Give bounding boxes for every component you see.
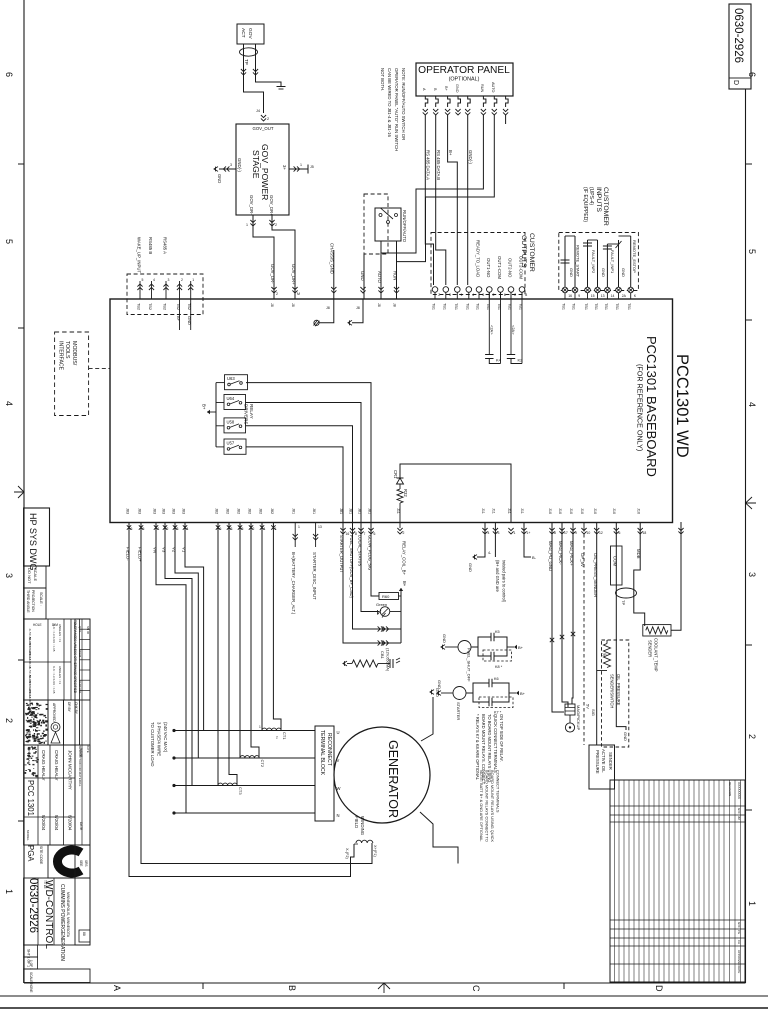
resistor R60 <box>379 593 401 600</box>
svg-text:2: 2 <box>267 117 269 121</box>
dashed box CUSTOMER OUTPUTS <box>431 233 535 295</box>
svg-text:SN ID: SN ID <box>86 626 90 635</box>
svg-text:PART NO.: PART NO. <box>78 680 82 694</box>
svg-text:8/20/04: 8/20/04 <box>68 815 73 831</box>
wire local status below edge to LED <box>358 508 380 612</box>
svg-text:J11: J11 <box>492 508 496 514</box>
svg-text:J10: J10 <box>548 508 552 514</box>
svg-text:J4: J4 <box>256 109 260 113</box>
svg-text:twisted pairs to control): twisted pairs to control) <box>502 560 507 603</box>
svg-text:NOTE: RUN/OFF/AUTO SWITCH OR: NOTE: RUN/OFF/AUTO SWITCH OR <box>401 68 406 140</box>
svg-text:1: 1 <box>246 223 248 227</box>
svg-text:8/20: 8/20 <box>737 922 741 928</box>
svg-text:MODBUS/: MODBUS/ <box>71 341 77 366</box>
wires J83 field and voltage sense <box>126 508 189 562</box>
label PCC1301 BASEBOARD <box>636 336 660 477</box>
svg-text:X+(F1): X+(F1) <box>373 845 377 857</box>
dashed box MODBUS TOOLS INTERFACE <box>55 332 89 416</box>
wire CT1 lead b <box>273 522 281 731</box>
wire relay output 4 starter output <box>246 447 343 522</box>
name and date rows <box>24 745 90 865</box>
svg-text:13: 13 <box>318 525 322 529</box>
svg-text:R32: R32 <box>403 489 408 497</box>
svg-text:CT3: CT3 <box>238 787 243 795</box>
svg-text:REVISION: REVISION <box>728 782 732 796</box>
svg-text:PCC 1301: PCC 1301 <box>26 780 35 816</box>
svg-text:GND: GND <box>187 316 192 325</box>
svg-text:10: 10 <box>587 531 591 535</box>
svg-text:FAULT_INP1: FAULT_INP1 <box>610 250 615 274</box>
wire relay output 3 fuel shutoff <box>246 426 353 522</box>
svg-text:MDB: MDB <box>636 549 641 559</box>
svg-text:2: 2 <box>747 734 757 739</box>
svg-text:SEE: SEE <box>79 860 83 866</box>
wire CT2 lead b <box>251 522 259 758</box>
svg-text:1+: 1+ <box>527 531 531 535</box>
svg-text:2A: 2A <box>622 294 627 298</box>
wire relay coil supply loop <box>400 464 511 522</box>
svg-text:TB1: TB1 <box>442 303 446 310</box>
svg-text:3: 3 <box>4 573 14 578</box>
svg-text:3: 3 <box>498 531 500 535</box>
svg-text:RUN/OFF/AUTO: RUN/OFF/AUTO <box>402 210 407 243</box>
svg-text:SITE CODE: SITE CODE <box>39 846 43 865</box>
svg-text:LOCAL_STATUS: LOCAL_STATUS <box>358 535 363 567</box>
svg-text:WD-CONTROL: WD-CONTROL <box>43 880 54 949</box>
wire B+ return vertical <box>399 581 407 643</box>
wire B- stub <box>520 508 537 560</box>
svg-text:DRIVERS: DRIVERS <box>244 404 249 424</box>
svg-text:PROJECTION: PROJECTION <box>31 590 35 612</box>
svg-text:SCALE :: SCALE : <box>39 592 43 606</box>
svg-text:DO NOT: DO NOT <box>27 568 32 584</box>
generator lead N <box>172 811 315 814</box>
svg-text:1: 1 <box>514 531 516 535</box>
svg-text:FIELD-: FIELD- <box>126 547 131 561</box>
svg-text:DATE: DATE <box>86 745 90 753</box>
current transformer CT3 <box>218 783 243 795</box>
svg-text:J11: J11 <box>520 508 524 514</box>
tolerance table <box>24 619 90 707</box>
svg-text:J5: J5 <box>310 165 314 169</box>
svg-text:0630-2926: 0630-2926 <box>732 8 744 63</box>
svg-text:GND: GND <box>442 634 447 643</box>
svg-text:15: 15 <box>591 294 595 298</box>
svg-text:REMOTE_START: REMOTE_START <box>576 245 581 278</box>
svg-text:GOV_DR+: GOV_DR+ <box>269 195 274 216</box>
svg-text:M: M <box>297 292 300 296</box>
svg-text:PCC1301 BASEBOARD: PCC1301 BASEBOARD <box>644 336 659 477</box>
svg-text:7: 7 <box>364 532 366 536</box>
svg-text:GENERATOR: GENERATOR <box>386 740 400 818</box>
svg-text:DESCRIPTION OR MATERIAL: DESCRIPTION OR MATERIAL <box>78 745 82 787</box>
svg-text:JOHN MCCARTHY: JOHN MCCARTHY <box>68 750 73 790</box>
relay driver U58 <box>224 418 246 433</box>
svg-text:J10: J10 <box>593 508 597 514</box>
svg-text:(240 VAC MAX): (240 VAC MAX) <box>163 722 168 753</box>
svg-text:8/20/04: 8/20/04 <box>41 815 46 831</box>
svg-text:J11: J11 <box>507 508 511 514</box>
svg-text:STARTER_OUTPUT: STARTER_OUTPUT <box>339 535 344 573</box>
dashed box wake-up / RS485 input <box>127 274 203 315</box>
svg-text:B+: B+ <box>176 316 181 322</box>
svg-text:5V: 5V <box>586 704 591 709</box>
svg-text:TB1: TB1 <box>627 303 631 310</box>
wire RUN to switch <box>381 115 483 253</box>
svg-text:ITEM: ITEM <box>78 650 82 658</box>
svg-text:GLOW_PLUG_SIG: GLOW_PLUG_SIG <box>368 535 373 570</box>
svg-text:J10: J10 <box>558 508 562 514</box>
wire CT3 lead a <box>217 522 219 786</box>
svg-text:SENDER: SENDER <box>608 752 613 770</box>
svg-text:GND: GND <box>455 84 459 93</box>
svg-text:J10: J10 <box>612 508 616 514</box>
wires mag pickup <box>548 508 577 712</box>
svg-text:TERMINAL BLOCK: TERMINAL BLOCK <box>319 730 325 776</box>
ground chassis below edge <box>314 299 334 326</box>
breaker CB1 with resistor <box>343 648 400 672</box>
svg-text:VN: VN <box>153 547 158 553</box>
svg-text:U57: U57 <box>227 441 235 446</box>
test point ellipse TP <box>616 588 637 605</box>
svg-text:J11: J11 <box>396 508 400 514</box>
parts list header column <box>75 619 90 845</box>
generator <box>334 727 430 823</box>
svg-text:XXXXXXXX: XXXXXXXX <box>737 782 741 800</box>
svg-text:TB1: TB1 <box>584 303 588 310</box>
wire gnd pair return <box>468 508 500 572</box>
wire glow plug sig below edge to R60 <box>368 508 380 596</box>
svg-text:3: 3 <box>482 293 484 297</box>
svg-text:COOLANT_TEMP: COOLANT_TEMP <box>654 638 659 672</box>
svg-text:J10: J10 <box>569 508 573 514</box>
svg-text:RELAY: RELAY <box>249 404 254 419</box>
svg-text:4: 4 <box>472 293 474 297</box>
svg-text:B+(BATTERY_CHARGER_ALT.): B+(BATTERY_CHARGER_ALT.) <box>291 552 296 615</box>
svg-text:AUTO: AUTO <box>491 82 495 93</box>
svg-text:OP: OP <box>601 653 607 657</box>
svg-text:D: D <box>732 80 739 85</box>
svg-text:RS 485 DATA A: RS 485 DATA A <box>426 150 431 180</box>
svg-text:6: 6 <box>4 72 14 77</box>
svg-text:TB2: TB2 <box>137 303 141 310</box>
svg-text:1 OF 1: 1 OF 1 <box>29 960 33 970</box>
wire twisted pair 1 <box>507 508 516 535</box>
svg-text:ON TOP SIDE OF RELAY.: ON TOP SIDE OF RELAY. <box>499 714 504 762</box>
svg-text:NOT BOTH.: NOT BOTH. <box>380 68 385 91</box>
svg-text:QUICK CONNECT TERMINALS: QUICK CONNECT TERMINALS <box>493 714 498 773</box>
wire V3 run <box>165 522 192 786</box>
title cell WD-CONTROL <box>24 878 90 993</box>
svg-text:GND(-): GND(-) <box>237 158 242 172</box>
svg-text:DR BY: DR BY <box>67 702 71 713</box>
wire generator bonding elbow <box>420 812 458 864</box>
generator lead W <box>172 784 315 787</box>
current transformer CT2 <box>240 756 265 768</box>
svg-text:TB1: TB1 <box>476 303 480 310</box>
PCC1301 baseboard outline <box>110 299 673 523</box>
svg-text:B: B <box>287 985 297 991</box>
svg-text:(B+ and GND are: (B+ and GND are <box>495 560 500 592</box>
svg-text:5: 5 <box>747 249 757 254</box>
svg-text:B+: B+ <box>518 645 524 650</box>
srs cell <box>75 845 90 945</box>
svg-text:J82: J82 <box>237 508 241 514</box>
wires J82 current transformer leads <box>215 508 277 531</box>
svg-text:1: 1 <box>259 725 261 729</box>
svg-text:STAGE: STAGE <box>251 150 261 179</box>
svg-text:W: W <box>337 786 341 791</box>
relay contact K4 <box>485 292 502 363</box>
svg-text:GOV_DR-: GOV_DR- <box>270 264 275 284</box>
svg-text:REMOTE_ESTOP: REMOTE_ESTOP <box>632 240 637 273</box>
svg-text:4: 4 <box>488 531 490 535</box>
svg-text:3: 3 <box>230 163 232 167</box>
svg-text:J83: J83 <box>162 508 166 514</box>
svg-text:APPROVED: APPROVED <box>27 748 31 766</box>
svg-text:2: 2 <box>275 223 277 227</box>
wire B+ battery charger alt <box>291 508 300 615</box>
svg-text:B+: B+ <box>202 404 207 410</box>
svg-text:6: 6 <box>747 72 757 77</box>
svg-text:8/20: 8/20 <box>737 808 741 814</box>
svg-text:GOV: GOV <box>247 28 253 39</box>
oil pressure sender switch dashed box <box>601 640 629 747</box>
svg-text:CRAIG HEALY: CRAIG HEALY <box>41 750 46 781</box>
svg-text:3 PHASE/4 WIRE: 3 PHASE/4 WIRE <box>157 722 162 756</box>
svg-text:INPUTS: INPUTS <box>595 187 602 212</box>
svg-text:J82: J82 <box>226 508 230 514</box>
note battery optional <box>479 770 501 842</box>
wire B+ <box>448 115 458 285</box>
wire GOV_DR- to J8 <box>246 215 278 307</box>
svg-text:2: 2 <box>276 292 278 296</box>
svg-text:FAULT_INP2: FAULT_INP2 <box>591 250 596 274</box>
svg-text:TB1: TB1 <box>615 303 619 310</box>
operator panel pin stubs <box>423 96 509 115</box>
svg-text:FIELD+: FIELD+ <box>138 547 143 562</box>
wire starter output below edge <box>339 508 401 646</box>
svg-text:12: 12 <box>599 531 603 535</box>
svg-text:GND: GND <box>360 271 365 281</box>
svg-text:GND: GND <box>437 680 442 689</box>
svg-text:CH: CH <box>737 940 741 944</box>
svg-text:MINNEAPOLIS, MINNESOTA: MINNEAPOLIS, MINNESOTA <box>66 892 70 938</box>
svg-text:HOLE: HOLE <box>33 623 42 627</box>
svg-text:9: 9 <box>578 294 580 298</box>
fuel shutoff solenoid <box>441 634 472 682</box>
svg-text:V3: V3 <box>162 547 167 553</box>
svg-text:GND: GND <box>623 732 628 741</box>
svg-text:OPERATOR PANEL: OPERATOR PANEL <box>418 65 510 76</box>
svg-text:GND: GND <box>621 268 626 277</box>
wire relay output 2 local status <box>246 403 362 523</box>
svg-text:13: 13 <box>601 294 605 298</box>
svg-text:J83: J83 <box>182 508 186 514</box>
generator frame ground <box>421 688 440 741</box>
block OPERATOR PANEL <box>416 63 513 96</box>
svg-text:OUT2-COM: OUT2-COM <box>519 256 524 279</box>
svg-text:8: 8 <box>525 293 527 297</box>
svg-text:RS485 B: RS485 B <box>148 237 153 254</box>
svg-text:GND(-): GND(-) <box>468 150 473 164</box>
svg-text:J81: J81 <box>292 508 296 514</box>
svg-text:WINDING: WINDING <box>360 816 365 836</box>
svg-text:J83: J83 <box>153 508 157 514</box>
svg-text:OIL_PRESS_SENDER: OIL_PRESS_SENDER <box>593 553 598 597</box>
svg-text:TB1: TB1 <box>454 303 458 310</box>
svg-text:2: 2 <box>4 718 14 723</box>
drawing number box top-right 0630-2926 <box>729 4 751 89</box>
wire GND(-) <box>468 115 473 285</box>
starter pilot solenoid <box>437 680 466 720</box>
svg-text:1: 1 <box>461 293 463 297</box>
svg-text:U: U <box>337 730 340 735</box>
svg-text:3: 3 <box>747 572 757 577</box>
field winding <box>345 816 377 859</box>
svg-text:1: 1 <box>747 901 757 906</box>
svg-text:CT1: CT1 <box>282 732 287 740</box>
wire oil pressure sender <box>591 508 607 745</box>
svg-text:SCALE NONE: SCALE NONE <box>29 972 33 993</box>
svg-text:PGA: PGA <box>26 845 35 862</box>
svg-text:CB1: CB1 <box>380 651 385 660</box>
svg-text:4: 4 <box>153 278 155 282</box>
svg-text:8: 8 <box>355 532 357 536</box>
svg-text:2: 2 <box>403 531 405 535</box>
wire MDB temp sender <box>634 508 647 626</box>
svg-text:B-: B- <box>532 555 537 560</box>
svg-text:U63: U63 <box>227 376 235 381</box>
svg-text:J83: J83 <box>126 508 130 514</box>
svg-text:88: 88 <box>82 932 86 936</box>
svg-text:18: 18 <box>643 531 647 535</box>
svg-text:1: 1 <box>192 278 194 282</box>
svg-text:16: 16 <box>568 294 572 298</box>
wire V2 run <box>175 522 198 758</box>
svg-text:MAG/PICKUP: MAG/PICKUP <box>576 705 581 730</box>
svg-text:3: 3 <box>449 293 451 297</box>
svg-text:TB1: TB1 <box>572 303 576 310</box>
svg-text:J81: J81 <box>368 508 372 514</box>
svg-text:SRS: SRS <box>84 860 88 867</box>
svg-text:5: 5 <box>4 239 14 244</box>
svg-text:TB1: TB1 <box>465 303 469 310</box>
svg-text:C: C <box>471 985 481 992</box>
svg-text:3+: 3+ <box>282 165 287 170</box>
revision table <box>610 780 745 982</box>
svg-text:J8: J8 <box>291 303 295 307</box>
wire relay output 1 glow plug <box>246 383 371 522</box>
svg-text:Green: Green <box>376 602 387 607</box>
svg-text:17: 17 <box>564 531 568 535</box>
wires wake-up inputs TB2 <box>137 237 195 330</box>
svg-text:2: 2 <box>493 293 495 297</box>
wire fuel shutoff below edge <box>349 508 402 632</box>
svg-text:J8: J8 <box>270 303 274 307</box>
svg-text:J10: J10 <box>637 508 641 514</box>
wire VN run <box>156 522 186 813</box>
svg-text:(FOR REFERENCE ONLY): (FOR REFERENCE ONLY) <box>636 364 645 451</box>
svg-text:TB1: TB1 <box>604 303 608 310</box>
svg-text:V2: V2 <box>172 547 177 553</box>
wire gov power stage right to chassis <box>289 163 314 174</box>
stub pin 8 <box>505 115 507 124</box>
svg-text:X.X : ±.3 X.XX : ±.15: X.X : ±.3 X.XX : ±.15 <box>52 666 56 694</box>
wire switch gnd <box>360 254 366 299</box>
cummins logo <box>48 845 90 878</box>
svg-text:J11: J11 <box>481 508 485 514</box>
svg-text:5: 5 <box>142 278 144 282</box>
svg-text:OP_5V: OP_5V <box>580 553 585 567</box>
customer inputs wires and contacts <box>561 236 638 287</box>
generator lead V <box>172 756 315 759</box>
svg-text:V: V <box>337 758 340 763</box>
wire CT2 lead a <box>239 522 241 758</box>
svg-text:FIELD: FIELD <box>354 816 359 828</box>
svg-text:K6: K6 <box>494 677 499 681</box>
svg-text:PG: PG <box>737 930 741 934</box>
svg-text:U64: U64 <box>227 396 235 401</box>
wire gov act left to gov power stage <box>241 44 269 121</box>
svg-text:J82: J82 <box>270 508 274 514</box>
note twisted pairs <box>495 560 507 603</box>
wire switch run <box>393 241 400 307</box>
relay driver U64 <box>224 395 246 410</box>
wire CT3 lead b <box>229 522 237 786</box>
coolant temp sender resistor <box>643 522 684 672</box>
svg-text:J81: J81 <box>339 508 343 514</box>
svg-text:R60: R60 <box>382 594 390 599</box>
relay contact K2 <box>507 292 523 363</box>
svg-text:9: 9 <box>575 531 577 535</box>
svg-text:GND: GND <box>569 268 574 277</box>
svg-text:(OPTIONAL): (OPTIONAL) <box>449 77 480 83</box>
svg-text:6: 6 <box>504 293 506 297</box>
svg-text:AUTO: AUTO <box>377 271 382 284</box>
svg-text:J82: J82 <box>248 508 252 514</box>
svg-text:0630-2926: 0630-2926 <box>27 878 39 933</box>
dashed wire modbus to baseboard <box>89 368 110 370</box>
svg-text:GND: GND <box>468 563 473 572</box>
approval stamp block <box>24 700 49 745</box>
wire OP 5V dashed <box>580 508 591 745</box>
wire RS 485 DATA A <box>425 115 433 285</box>
svg-text:X.X : ±.3 X.XX : ±.15: X.X : ±.3 X.XX : ±.15 <box>52 624 56 652</box>
svg-text:1: 1 <box>298 525 300 529</box>
svg-text:K4: K4 <box>496 358 502 363</box>
svg-text:B+: B+ <box>520 691 526 696</box>
svg-text:2: 2 <box>514 293 516 297</box>
svg-text:6: 6 <box>619 531 621 535</box>
svg-text:GOV_DR+: GOV_DR+ <box>291 264 296 285</box>
svg-text:RECONNECT: RECONNECT <box>326 733 332 767</box>
svg-text:TB1: TB1 <box>562 303 566 310</box>
svg-text:TP: TP <box>621 600 626 605</box>
reconnect terminal block <box>315 726 341 821</box>
wire switch auto <box>377 241 384 307</box>
svg-text:DATE: DATE <box>79 822 83 830</box>
wire starter disc input <box>312 508 322 600</box>
customer inputs terminals <box>562 287 637 310</box>
svg-text:K5: K5 <box>495 630 500 634</box>
svg-text:HP SYS DWG: HP SYS DWG <box>28 513 38 570</box>
svg-text:K8 *: K8 * <box>495 665 503 669</box>
svg-text:QTY: QTY <box>78 626 82 632</box>
svg-text:BOARD MOUNT RELAYS CONNECT TO: BOARD MOUNT RELAYS CONNECT TO <box>485 770 490 842</box>
svg-text:4: 4 <box>747 402 757 407</box>
svg-text:DATE: DATE <box>737 966 741 973</box>
